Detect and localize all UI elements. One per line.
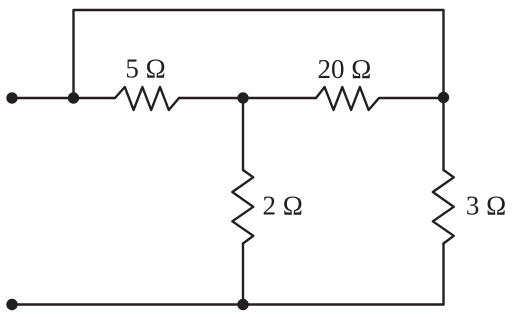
- wire 2-ohm resistor to bottom node: [242, 244, 244, 305]
- wire between 5-ohm and 20-ohm resistors through node B: [179, 97, 316, 99]
- node terminal lower-left: [6, 299, 17, 310]
- wire node B down to 2-ohm resistor: [242, 98, 244, 170]
- node B junction: [237, 92, 248, 103]
- node A junction: [68, 92, 79, 103]
- svg-text:3 Ω: 3 Ω: [466, 190, 506, 220]
- node terminal upper-left: [6, 92, 17, 103]
- resistor R1 5 ohm: [115, 87, 179, 110]
- resistor R4 3 ohm: [433, 170, 454, 244]
- wire left terminal to 5-ohm resistor: [12, 97, 115, 99]
- wire bottom return from left terminal to bottom right corner: [12, 303, 444, 305]
- wire 3-ohm resistor to bottom right corner: [442, 244, 444, 305]
- svg-text:20 Ω: 20 Ω: [317, 54, 371, 84]
- wire 20-ohm resistor to node C: [380, 97, 444, 99]
- svg-text:5 Ω: 5 Ω: [125, 53, 165, 83]
- wire top loop from node A over to node C: [74, 10, 444, 98]
- node C junction: [438, 92, 449, 103]
- resistor R3 2 ohm: [232, 170, 253, 244]
- svg-text:2 Ω: 2 Ω: [263, 190, 303, 220]
- wire node C down to 3-ohm resistor: [442, 98, 444, 170]
- node D bottom junction: [237, 299, 248, 310]
- resistor R2 20 ohm: [316, 87, 379, 110]
